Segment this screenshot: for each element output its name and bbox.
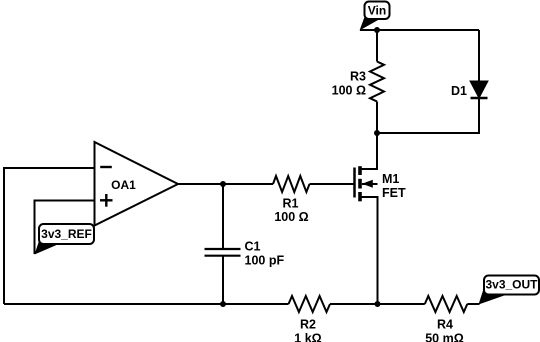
svg-text:D1: D1 — [451, 84, 467, 98]
wire M1 source down to bottom rail — [360, 197, 378, 304]
svg-text:100 pF: 100 pF — [245, 254, 285, 268]
svg-text:1 kΩ: 1 kΩ — [294, 332, 321, 342]
wire M1 drain from node B — [360, 133, 377, 169]
op-amp OA1 — [95, 142, 179, 226]
wire top rail from Vin flag to diode branch — [360, 29, 479, 31]
transistor M1 (NMOS) — [355, 166, 378, 201]
wire bottom rail left segment — [4, 303, 289, 305]
svg-text:50 mΩ: 50 mΩ — [425, 332, 464, 342]
node B (R3/D1/drain junction) — [374, 130, 380, 136]
wire R1 to M1 gate — [310, 183, 355, 185]
wire bottom rail middle segment — [330, 303, 425, 305]
svg-text:R1: R1 — [283, 197, 299, 211]
svg-text:R3: R3 — [350, 70, 366, 84]
diode D1 — [470, 81, 488, 98]
svg-text:3v3_OUT: 3v3_OUT — [485, 278, 538, 292]
node C (output/R1/C1 junction) — [220, 181, 226, 187]
wire diode branch right side down — [478, 30, 480, 81]
resistor R2 — [289, 296, 331, 312]
wire inverting input feedback (left rail) — [4, 168, 95, 304]
wire from diode cathode down and left to node B — [377, 98, 479, 133]
svg-text:100 Ω: 100 Ω — [332, 84, 366, 98]
svg-text:100 Ω: 100 Ω — [274, 210, 308, 224]
wire from node A down to R3 — [376, 30, 378, 62]
node A (Vin junction) — [374, 27, 380, 33]
resistor R1 — [273, 176, 310, 192]
resistor R3 — [370, 62, 384, 102]
net flag Vin — [360, 2, 390, 31]
svg-text:OA1: OA1 — [111, 178, 136, 192]
net flag 3v3_OUT — [479, 276, 540, 305]
svg-text:R4: R4 — [437, 318, 453, 332]
capacitor C1 — [205, 249, 241, 256]
svg-text:FET: FET — [382, 186, 406, 200]
node E (M1 source/bottom rail junction) — [375, 301, 381, 307]
svg-text:3v3_REF: 3v3_REF — [41, 227, 92, 241]
node D (C1/bottom rail junction) — [220, 301, 226, 307]
wire node C down to C1 — [222, 184, 224, 249]
wire R3 bottom to node B — [376, 102, 378, 134]
wire op-amp output to node C — [178, 183, 273, 185]
svg-text:M1: M1 — [382, 172, 399, 186]
svg-text:C1: C1 — [245, 240, 261, 254]
svg-text:R2: R2 — [300, 318, 316, 332]
resistor R4 — [425, 296, 468, 312]
wire non-inverting input to 3v3_REF — [35, 201, 95, 255]
net flag 3v3_REF — [35, 224, 95, 255]
svg-text:Vin: Vin — [368, 4, 386, 18]
wire C1 bottom to node D — [222, 256, 224, 304]
wire bottom rail right segment to 3v3_OUT — [467, 303, 479, 305]
